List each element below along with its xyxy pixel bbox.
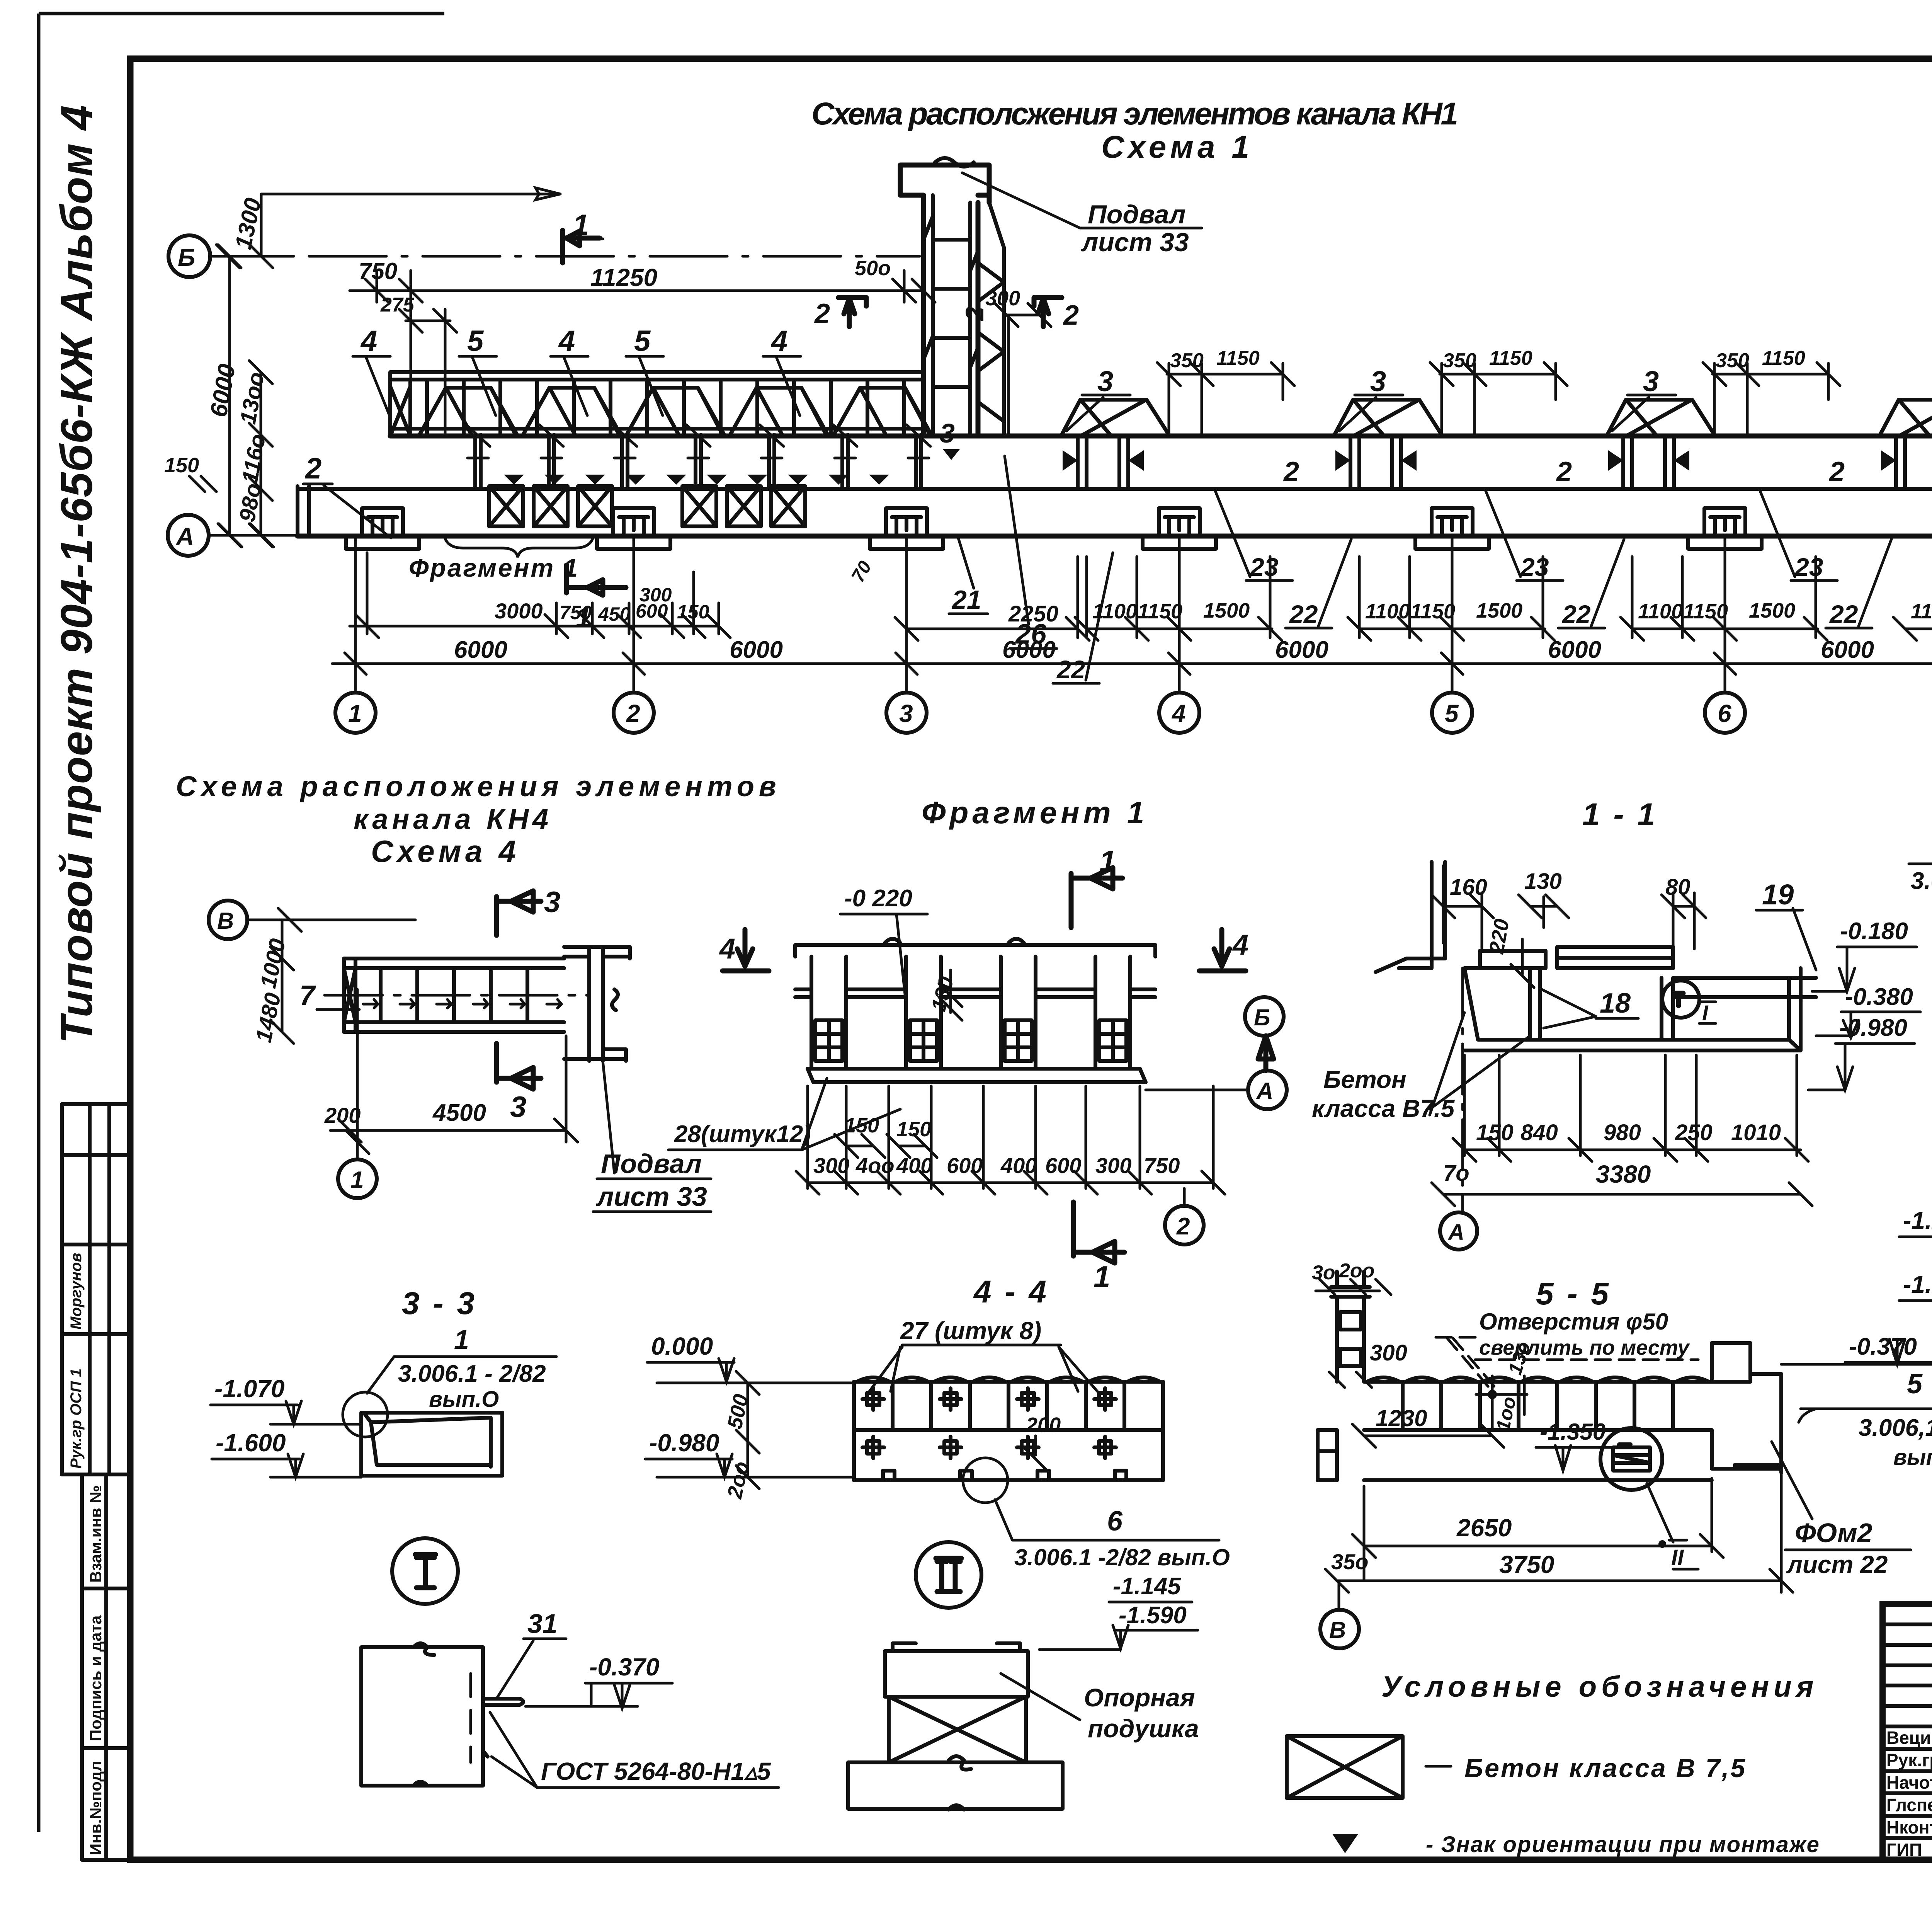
section marker 1 top (563, 230, 600, 263)
section marker 3 bottom (497, 1044, 541, 1089)
svg-text:1: 1 (1099, 844, 1116, 878)
svg-text:350: 350 (1443, 349, 1476, 372)
svg-text:вып.О: вып.О (1893, 1445, 1932, 1470)
svg-text:2: 2 (960, 306, 989, 322)
svg-text:1: 1 (348, 700, 362, 727)
svg-text:3.006.1-2/82: 3.006.1-2/82 (1911, 868, 1932, 894)
svg-text:3380: 3380 (1596, 1160, 1651, 1188)
left inventory strip (82, 1474, 129, 1860)
svg-text:3: 3 (544, 886, 560, 919)
right wing (989, 203, 1004, 436)
svg-text:22: 22 (1561, 600, 1591, 628)
svg-text:1150: 1150 (1489, 347, 1532, 369)
axis circle Б (168, 235, 210, 277)
svg-text:400: 400 (896, 1153, 932, 1178)
centerline (325, 994, 587, 997)
svg-text:28(штук12): 28(штук12) (674, 1121, 811, 1147)
svg-text:-0.180: -0.180 (1840, 918, 1908, 945)
trough section (1464, 968, 1801, 1050)
svg-text:275: 275 (380, 294, 415, 316)
connector plates (862, 1388, 1116, 1458)
svg-text:21: 21 (951, 585, 981, 615)
svg-text:Моргунов: Моргунов (68, 1253, 85, 1330)
band inner bottom line (298, 487, 1932, 491)
svg-text:150: 150 (164, 454, 199, 477)
foundation bottom line (298, 534, 1932, 539)
svg-text:- Знак ориентации при монтаже: - Знак ориентации при монтаже (1426, 1832, 1820, 1857)
svg-text:3 - 3: 3 - 3 (402, 1286, 477, 1321)
brick stacks inside teeth (815, 1020, 1126, 1061)
svg-text:Начотд: Начотд (1886, 1772, 1932, 1793)
svg-text:Опорная: Опорная (1084, 1683, 1195, 1712)
svg-text:300: 300 (813, 1153, 849, 1178)
axis circle В (5-5) (1320, 1610, 1359, 1648)
svg-text:5: 5 (634, 325, 651, 358)
svg-text:1150: 1150 (1138, 600, 1182, 623)
band line under run (390, 427, 923, 431)
roof trapezoids elements 4/5 (419, 388, 932, 436)
pit walls (1896, 436, 1932, 489)
svg-text:3: 3 (899, 700, 913, 727)
support pad X-block (889, 1697, 1026, 1762)
svg-text:Взам.инв №: Взам.инв № (87, 1485, 105, 1583)
grid circle 2 (fragment) (1165, 1206, 1204, 1245)
leader circle (343, 1392, 388, 1437)
pit with П anchor at grid 4464 (1704, 508, 1745, 536)
left small pier (1318, 1430, 1337, 1480)
svg-text:6000: 6000 (1821, 637, 1874, 663)
svg-text:5 - 5: 5 - 5 (1536, 1276, 1611, 1311)
dim 130 (939, 970, 962, 1020)
svg-text:3о: 3о (1312, 1262, 1335, 1284)
shaft hatch (923, 216, 978, 367)
svg-text:4 - 4: 4 - 4 (973, 1274, 1049, 1309)
svg-text:вып.О: вып.О (429, 1387, 499, 1412)
upper run ribs (427, 380, 904, 435)
svg-text:4: 4 (719, 933, 735, 965)
svg-text:В: В (217, 908, 234, 934)
svg-text:11250: 11250 (590, 264, 657, 291)
svg-text:6000: 6000 (1275, 637, 1328, 663)
svg-text:1100: 1100 (1365, 600, 1410, 623)
svg-text:31: 31 (527, 1609, 558, 1639)
svg-text:840: 840 (1520, 1120, 1558, 1145)
axis circle В (209, 901, 247, 939)
svg-text:23: 23 (1249, 553, 1278, 581)
svg-text:Глспец: Глспец (1886, 1795, 1932, 1815)
svg-text:80: 80 (1665, 875, 1690, 900)
svg-text:6: 6 (1718, 700, 1731, 727)
section marker 2 right of shaft (1034, 298, 1062, 327)
svg-text:4: 4 (360, 325, 377, 358)
svg-text:3: 3 (510, 1091, 526, 1124)
detail circle II (5-5) (1600, 1428, 1662, 1490)
support pad (опорная подушка) top block (885, 1643, 1028, 1697)
svg-text:22: 22 (1289, 600, 1318, 628)
svg-text:3: 3 (940, 418, 955, 448)
svg-text:-1.200: -1.200 (1903, 1207, 1932, 1234)
grid line 5 (1451, 536, 1454, 692)
inner wall lines (1530, 968, 1673, 1040)
svg-text:2: 2 (1556, 456, 1572, 487)
svg-text:1100: 1100 (1911, 600, 1932, 623)
channel ladder bar (344, 958, 564, 1032)
pit with П anchor at grid 1640 (613, 508, 654, 536)
legend orientation triangle (1332, 1834, 1358, 1853)
svg-text:2: 2 (1176, 1213, 1190, 1240)
column (5-5) (1331, 1272, 1370, 1382)
svg-text:0.000: 0.000 (651, 1332, 713, 1360)
svg-text:-1.600: -1.600 (216, 1429, 286, 1457)
section marker 3 top (497, 891, 541, 935)
svg-text:-1.350: -1.350 (1540, 1419, 1605, 1445)
svg-text:23: 23 (1520, 553, 1549, 581)
detail circle I (1662, 981, 1699, 1018)
svg-text:600: 600 (947, 1153, 983, 1178)
axis circle Б (fragment) (1245, 997, 1284, 1036)
svg-text:Бетон: Бетон (1323, 1066, 1406, 1093)
svg-text:Рук.гр: Рук.гр (1886, 1750, 1932, 1770)
grid circle 4 (1159, 693, 1199, 733)
svg-text:канала КН4: канала КН4 (354, 803, 552, 835)
top line with dim 1300 (261, 188, 560, 256)
svg-text:2: 2 (304, 452, 321, 485)
base slab (848, 1762, 1063, 1809)
square with weld mark (361, 1647, 483, 1786)
svg-text:300: 300 (639, 584, 672, 606)
X-braced foundation boxes (489, 486, 805, 526)
svg-text:1100: 1100 (1638, 600, 1683, 623)
detail circle II (916, 1542, 981, 1608)
svg-text:6000: 6000 (1002, 637, 1056, 663)
svg-text:ФОм2: ФОм2 (1795, 1518, 1872, 1548)
upper channel run chords (390, 372, 923, 380)
comb top slab (795, 945, 1155, 957)
axis circle А (fragment) (1248, 1071, 1287, 1109)
shaft rungs (933, 240, 970, 387)
svg-text:-1.730: -1.730 (1903, 1270, 1932, 1298)
grid circle 5 (1432, 693, 1472, 733)
В axis line (247, 908, 415, 931)
svg-text:2оо: 2оо (1338, 1260, 1374, 1282)
right bracket element (564, 947, 630, 1061)
svg-text:3.006.1 - 2/82: 3.006.1 - 2/82 (398, 1360, 546, 1387)
svg-text:6000: 6000 (730, 637, 783, 663)
shaft walls (923, 195, 978, 436)
svg-text:Подвал: Подвал (601, 1149, 702, 1179)
svg-text:4500: 4500 (432, 1100, 486, 1126)
svg-text:А: А (175, 523, 194, 550)
orientation triangles (504, 475, 524, 485)
grid circle 1 (335, 693, 376, 733)
svg-text:22: 22 (1829, 600, 1858, 628)
axis А line (209, 524, 298, 547)
shelf lines between teeth (795, 989, 1155, 997)
svg-text:II: II (1671, 1545, 1684, 1570)
leader Подвал лист 33 (962, 173, 1202, 228)
feet under band (883, 1471, 1126, 1480)
svg-text:2: 2 (1828, 456, 1845, 487)
grid circle 6 (1705, 693, 1745, 733)
svg-text:ГИП: ГИП (1886, 1840, 1922, 1860)
svg-text:400: 400 (1000, 1153, 1037, 1178)
svg-text:4: 4 (558, 325, 575, 358)
trapezoid element 3 span 0 (1061, 400, 1170, 436)
axis circle А (1-1) (1440, 1212, 1477, 1250)
grid circle 3 (886, 693, 927, 733)
svg-text:-0.980: -0.980 (649, 1429, 719, 1457)
pit with П anchor at grid 3758 (1432, 508, 1473, 536)
svg-text:1 - 1: 1 - 1 (1582, 797, 1657, 832)
svg-text:Подвал: Подвал (1088, 200, 1186, 229)
svg-text:18: 18 (1600, 988, 1631, 1019)
svg-text:I: I (1702, 1001, 1709, 1025)
text Подвал лист 33 (КН4) (597, 1061, 711, 1179)
svg-text:980: 980 (1604, 1120, 1641, 1145)
svg-text:Нконтр: Нконтр (1886, 1817, 1932, 1837)
svg-text:3: 3 (1097, 365, 1113, 397)
svg-text:А: А (1447, 1220, 1464, 1245)
svg-text:7о: 7о (1443, 1161, 1469, 1186)
svg-text:300: 300 (1370, 1340, 1407, 1365)
section marker 1 bottom (1073, 1202, 1124, 1263)
pit walls (1623, 436, 1674, 489)
svg-text:300: 300 (1095, 1153, 1131, 1178)
pit with П anchor at grid 990 (362, 508, 403, 536)
svg-text:19: 19 (1762, 878, 1794, 911)
svg-text:200: 200 (1026, 1413, 1061, 1437)
svg-text:Б: Б (1254, 1004, 1270, 1030)
svg-text:4: 4 (1232, 929, 1248, 961)
svg-text:7: 7 (299, 980, 316, 1011)
svg-text:6: 6 (1107, 1506, 1123, 1537)
wall above left (1376, 862, 1445, 972)
svg-text:Схема 4: Схема 4 (371, 834, 520, 868)
svg-text:-0.370: -0.370 (1849, 1333, 1917, 1360)
svg-text:5: 5 (1445, 700, 1459, 727)
svg-text:50о: 50о (855, 257, 891, 280)
svg-text:150: 150 (1476, 1120, 1514, 1145)
svg-text:Рук.гр ОСП 1: Рук.гр ОСП 1 (68, 1369, 85, 1469)
pit walls (1350, 436, 1401, 489)
svg-text:27 (штук 8): 27 (штук 8) (900, 1317, 1041, 1345)
svg-text:-0.380: -0.380 (1845, 984, 1913, 1010)
svg-text:1150: 1150 (1683, 600, 1728, 623)
trapezoid element 3 span 3 (1879, 400, 1932, 436)
svg-text:1: 1 (1094, 1260, 1110, 1294)
basement shaft cap (900, 165, 989, 203)
svg-text:-0.980: -0.980 (1839, 1015, 1907, 1041)
svg-text:2: 2 (626, 700, 640, 727)
svg-text:6000: 6000 (454, 637, 507, 663)
svg-text:2: 2 (1063, 300, 1079, 331)
grid circle 1 (338, 1159, 377, 1198)
grid line 6 (1724, 536, 1726, 692)
trapezoid element 3 span 1 (1334, 400, 1442, 436)
svg-text:лист 33: лист 33 (1081, 228, 1189, 257)
svg-text:1150: 1150 (1216, 347, 1260, 369)
band (5-5) (1367, 1377, 1709, 1382)
svg-text:3.006,1-2/82: 3.006,1-2/82 (1859, 1415, 1932, 1441)
svg-text:Условные обозначения: Условные обозначения (1381, 1670, 1818, 1703)
trapezoid element 3 span 2 (1607, 400, 1715, 436)
svg-text:3.006.1 -2/82 вып.О: 3.006.1 -2/82 вып.О (1014, 1544, 1230, 1570)
grid circle 2 (614, 693, 654, 733)
svg-text:2: 2 (814, 298, 830, 329)
pit with П anchor at grid 2346 (886, 508, 927, 536)
axis Б line (211, 245, 294, 268)
svg-text:250: 250 (1675, 1120, 1713, 1145)
grid line 1 (354, 536, 357, 692)
svg-text:1500: 1500 (1203, 599, 1250, 622)
svg-text:Инв.№подл: Инв.№подл (87, 1761, 105, 1855)
svg-text:1150: 1150 (1410, 600, 1455, 623)
svg-text:1230: 1230 (1376, 1405, 1427, 1431)
weld tab (483, 1699, 523, 1757)
svg-text:подушка: подушка (1088, 1714, 1199, 1743)
fragment 1 brace (445, 537, 593, 557)
section marker 1 bottom (566, 565, 626, 595)
svg-text:класса В7.5: класса В7.5 (1312, 1095, 1455, 1122)
band interior rib pairs (475, 435, 921, 489)
svg-text:ГОСТ 5264-80-Н1▵5: ГОСТ 5264-80-Н1▵5 (541, 1757, 771, 1785)
А→Б arrow (1258, 1036, 1274, 1071)
svg-text:1010: 1010 (1731, 1120, 1781, 1145)
right end block (5-5) (1712, 1343, 1781, 1473)
svg-text:Вецинк: Вецинк (1886, 1728, 1932, 1748)
left end wall (298, 486, 309, 536)
svg-text:-1.070: -1.070 (214, 1375, 284, 1403)
svg-text:Подпись и дата: Подпись и дата (87, 1615, 105, 1741)
svg-text:150: 150 (896, 1118, 931, 1141)
svg-text:-0 220: -0 220 (844, 885, 912, 912)
svg-text:Фрагмент 1: Фрагмент 1 (922, 795, 1148, 830)
svg-text:3000: 3000 (495, 599, 543, 623)
svg-text:1: 1 (350, 1167, 364, 1193)
svg-text:лист 22: лист 22 (1786, 1551, 1888, 1578)
svg-text:3: 3 (1370, 365, 1386, 397)
svg-text:1: 1 (454, 1325, 469, 1355)
svg-text:Б: Б (178, 243, 195, 271)
svg-text:350: 350 (1170, 349, 1204, 372)
svg-text:Схема 1: Схема 1 (1101, 129, 1253, 165)
diagonal brace at left end (344, 968, 355, 1022)
svg-text:Схема располсжения элементов к: Схема располсжения элементов канала КН1 (811, 96, 1461, 131)
svg-text:3750: 3750 (1499, 1551, 1554, 1578)
svg-text:5: 5 (1907, 1369, 1923, 1399)
scan page edge lines (39, 14, 444, 1832)
svg-text:1500: 1500 (1476, 599, 1522, 622)
svg-text:Фрагмент 1: Фрагмент 1 (409, 553, 579, 582)
svg-text:Отверстия φ50: Отверстия φ50 (1479, 1309, 1668, 1335)
svg-text:2250: 2250 (1008, 601, 1058, 627)
svg-text:22: 22 (1056, 655, 1085, 684)
svg-text:-1.145: -1.145 (1113, 1573, 1181, 1600)
dims 500 200 rot (736, 1371, 759, 1489)
label II with leader (1658, 1540, 1666, 1548)
left approval table (62, 1104, 129, 1474)
svg-text:5: 5 (467, 325, 484, 358)
svg-text:В: В (1329, 1617, 1346, 1643)
svg-text:лист 33: лист 33 (596, 1182, 707, 1212)
detail circle I (392, 1538, 458, 1604)
svg-text:Бетон класса В 7,5: Бетон класса В 7,5 (1464, 1754, 1747, 1783)
base slab (808, 1069, 1146, 1082)
left dim chain lines (218, 245, 272, 547)
section marker 1 top (1071, 868, 1122, 928)
grid line 4 (1178, 536, 1181, 692)
grid line 2 (633, 536, 635, 692)
svg-text:35о: 35о (1331, 1549, 1369, 1574)
axis circle А (168, 515, 209, 556)
svg-text:4: 4 (770, 325, 787, 358)
svg-text:Схема расположения элементов: Схема расположения элементов (176, 770, 781, 802)
detail circle on foot (963, 1458, 1008, 1503)
svg-text:4: 4 (1171, 700, 1186, 727)
legend concrete symbol (1287, 1736, 1403, 1798)
dims 1000 1480 (270, 920, 294, 1044)
comb teeth walls (811, 957, 1130, 1069)
svg-text:2: 2 (1283, 456, 1299, 487)
svg-text:-0.370: -0.370 (589, 1653, 659, 1681)
pit with П anchor at grid 3052 (1159, 508, 1200, 536)
upper run left X brace (390, 372, 410, 436)
svg-text:А: А (1256, 1078, 1273, 1104)
svg-text:Типовой проект 904-1-65б6-КЖ: Типовой проект 904-1-65б6-КЖ Альбом 4 (51, 104, 102, 1044)
main band top line (390, 434, 1932, 439)
title block outer frame (1883, 1604, 1932, 1860)
pit walls (1078, 436, 1128, 489)
slab band top (857, 1377, 1160, 1382)
hole marks (1488, 1390, 1497, 1399)
svg-text:750: 750 (1144, 1153, 1180, 1178)
svg-text:23: 23 (1794, 553, 1823, 581)
svg-text:350: 350 (1716, 349, 1749, 372)
main dim row 6000 (332, 662, 1932, 665)
svg-text:6000: 6000 (1548, 637, 1601, 663)
flat trough 3-3 (361, 1413, 502, 1476)
grid line 3 (905, 536, 908, 692)
pipe right (1673, 978, 1816, 997)
svg-text:3: 3 (1643, 365, 1659, 397)
svg-text:1500: 1500 (1749, 599, 1795, 622)
svg-text:2650: 2650 (1456, 1514, 1512, 1542)
svg-text:1150: 1150 (1762, 347, 1805, 369)
svg-text:130: 130 (1524, 869, 1562, 894)
svg-text:1: 1 (573, 209, 589, 242)
